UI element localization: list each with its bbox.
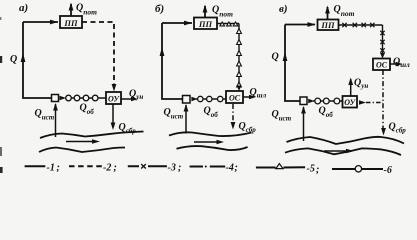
svg-text:ОУ: ОУ <box>344 98 356 107</box>
arrow Q_pot b <box>204 6 206 18</box>
wire Q_ist v <box>303 107 305 141</box>
arrow Q_pot v <box>327 7 329 20</box>
arrow Q_shl v <box>390 63 400 65</box>
wire Q_ist a <box>55 104 57 137</box>
svg-text:-6: -6 <box>384 165 392 176</box>
cooling pond OS v <box>373 59 390 71</box>
river b flow arrow <box>194 141 218 143</box>
wire circle chain v <box>313 100 343 102</box>
scan artifact left edge 3 <box>0 167 3 173</box>
svg-text:ПП: ПП <box>198 19 213 29</box>
x symbol v h4 <box>370 23 374 27</box>
river b surface line <box>169 132 252 136</box>
wire x chain horizontal v <box>339 24 383 26</box>
x symbol v v2 <box>380 40 384 44</box>
arrowhead into PP a <box>50 20 58 25</box>
arrowhead into OS b <box>237 86 242 92</box>
svg-text:-2: -2 <box>103 163 111 174</box>
triangle symbol b v1 <box>237 29 242 34</box>
svg-text:б): б) <box>155 3 164 15</box>
arrow Q_pot a <box>70 4 72 16</box>
arrowhead after square b <box>191 97 197 101</box>
water intake square b <box>183 96 191 104</box>
legend item 4 dash-dot line <box>190 166 226 168</box>
svg-text:;: ; <box>114 163 117 174</box>
arrow Q_shl b <box>243 96 253 98</box>
wire circle chain a <box>65 97 106 99</box>
svg-text:ОС: ОС <box>229 94 241 103</box>
cooling unit OU v <box>343 96 358 108</box>
wire Q_sbr b dash-dot <box>232 104 234 124</box>
triangle symbol b v4 <box>237 61 242 66</box>
x symbol v h1 <box>342 23 346 27</box>
svg-text:ОС: ОС <box>376 61 388 70</box>
river v flow arrow <box>324 150 347 152</box>
wire circle chain b <box>196 98 226 100</box>
arrow Q_un a <box>121 98 135 100</box>
svg-text:;: ; <box>316 165 319 176</box>
arrowhead into PP v <box>308 22 316 27</box>
arrowhead up on left wire v <box>283 52 288 61</box>
legend item 2 dashed line <box>69 165 102 167</box>
arrowhead into PP b <box>184 21 192 26</box>
water intake square a <box>52 95 59 102</box>
water intake square v <box>300 97 307 105</box>
legend item 3 line with x <box>128 165 167 167</box>
svg-text:-4: -4 <box>226 163 234 174</box>
svg-text:;: ; <box>178 163 181 174</box>
arrowhead into OS v <box>380 53 385 59</box>
river a flow arrow <box>66 141 93 143</box>
heat consumer PP b <box>194 18 217 30</box>
arrowhead up on left wire b <box>160 47 165 56</box>
triangle symbol b v2 <box>237 40 242 45</box>
river a surface line <box>40 132 144 139</box>
svg-text:;: ; <box>57 163 60 174</box>
scan artifact left edge 4 <box>0 17 1 20</box>
x symbol v h3 <box>362 23 366 27</box>
wire dashed PP to OU a <box>82 22 114 86</box>
svg-text:-3: -3 <box>168 163 176 174</box>
circulation circles b <box>198 96 203 101</box>
wire left loop b <box>162 23 183 99</box>
river v lower line <box>285 148 401 155</box>
legend item 5 line with triangle <box>256 166 305 168</box>
svg-text:Q: Q <box>272 52 279 63</box>
wire top a into PP <box>23 21 58 23</box>
svg-text:-1: -1 <box>47 163 55 174</box>
triangle symbol b h2 <box>227 22 232 26</box>
svg-text:а): а) <box>19 2 28 14</box>
cooling pond OS b <box>226 91 243 103</box>
x symbol v h2 <box>353 23 357 27</box>
wire dash-dot OU to drain v <box>366 102 383 104</box>
triangle symbol b h3 <box>233 22 238 26</box>
arrow Q_un v up from OU <box>350 79 352 96</box>
river a lower line <box>39 148 125 153</box>
wire left loop v <box>285 25 300 102</box>
x symbol v v3 <box>380 48 384 52</box>
cooling unit OU a <box>106 92 121 104</box>
x symbol v v1 <box>380 31 384 35</box>
triangle symbol b v6 <box>237 82 242 87</box>
svg-text:;: ; <box>235 163 238 174</box>
river b lower line <box>177 146 248 150</box>
arrowhead after square v <box>308 99 314 103</box>
wire triangle chain vertical b <box>238 24 240 89</box>
scan artifact left edge 2 <box>0 147 2 156</box>
arrowhead into OU a <box>112 84 117 92</box>
scan artifact left edge 1 <box>0 56 2 63</box>
svg-text:ПП: ПП <box>320 20 335 30</box>
triangle symbol b h1 <box>220 22 225 26</box>
wire Q_sbr a <box>112 104 114 125</box>
svg-text:ПП: ПП <box>63 18 78 28</box>
svg-text:Q: Q <box>10 54 17 65</box>
circulation circles v <box>315 98 321 104</box>
legend item 6 line with circle <box>332 168 383 170</box>
legend item 1 solid line <box>25 165 46 167</box>
triangle symbol b v5 <box>237 72 242 77</box>
wire top b into PP <box>162 22 192 24</box>
wire triangle chain horizontal b <box>217 23 239 25</box>
arrowhead up on left wire a <box>21 53 26 62</box>
arrowhead after square a <box>60 96 67 100</box>
wire top v into PP <box>285 24 315 26</box>
circulation circles a <box>66 95 72 101</box>
svg-text:в): в) <box>279 3 288 15</box>
svg-text:ОУ: ОУ <box>108 95 120 104</box>
wire left loop a <box>23 22 51 98</box>
triangle symbol b v3 <box>237 51 242 56</box>
arrowhead after OU v <box>359 100 366 104</box>
wire Q_ist b <box>185 105 187 134</box>
heat consumer PP v <box>318 20 339 31</box>
heat consumer PP a <box>60 16 82 28</box>
wire x chain vertical v <box>382 25 384 56</box>
river v surface line <box>287 137 405 144</box>
svg-text:-5: -5 <box>307 164 315 175</box>
wire Q_sbr v dash-dot <box>382 70 384 128</box>
